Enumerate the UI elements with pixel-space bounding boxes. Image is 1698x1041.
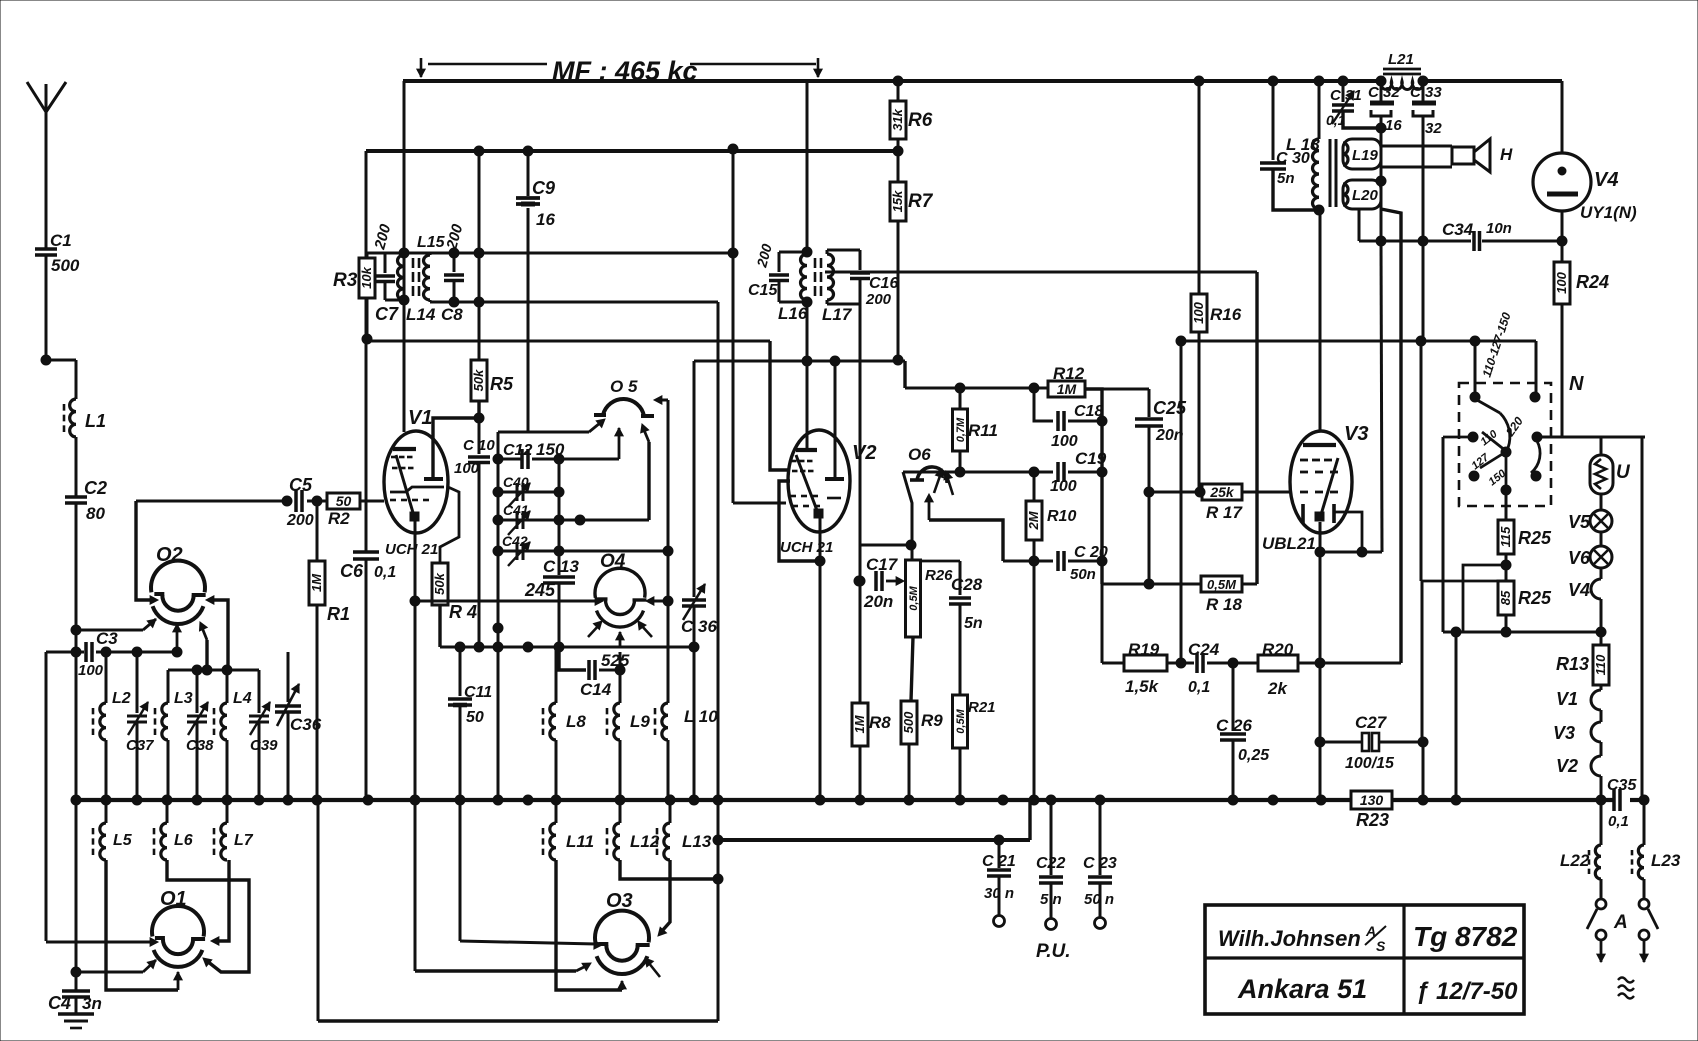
svg-text:Ankara 51: Ankara 51 <box>1237 974 1367 1004</box>
svg-text:20n: 20n <box>863 592 893 611</box>
svg-text:0,5M: 0,5M <box>955 708 967 733</box>
svg-text:Tg 8782: Tg 8782 <box>1413 921 1518 952</box>
svg-text:C 20: C 20 <box>1074 544 1108 561</box>
svg-text:O6: O6 <box>908 445 931 464</box>
svg-text:R13: R13 <box>1556 654 1589 674</box>
svg-text:200: 200 <box>286 512 314 529</box>
svg-text:C3: C3 <box>96 629 118 648</box>
svg-text:L13: L13 <box>682 832 712 851</box>
svg-text:L22: L22 <box>1560 851 1590 870</box>
svg-text:C19: C19 <box>1075 449 1107 468</box>
svg-text:R16: R16 <box>1210 305 1242 324</box>
svg-text:C 32: C 32 <box>1368 84 1400 101</box>
svg-text:200: 200 <box>865 291 892 308</box>
svg-text:0,1: 0,1 <box>1326 112 1346 128</box>
svg-text:C35: C35 <box>1607 777 1637 794</box>
svg-text:L6: L6 <box>174 832 193 849</box>
svg-text:R5: R5 <box>490 374 514 394</box>
svg-text:L3: L3 <box>174 690 193 707</box>
svg-text:32: 32 <box>1425 120 1442 137</box>
svg-text:20n: 20n <box>1155 427 1184 444</box>
svg-text:0,25: 0,25 <box>1238 747 1270 764</box>
svg-text:A: A <box>1613 912 1628 933</box>
svg-text:0,7M: 0,7M <box>955 417 967 442</box>
svg-text:130: 130 <box>1360 792 1384 808</box>
svg-text:R8: R8 <box>869 713 891 732</box>
svg-text:25k: 25k <box>1209 484 1235 500</box>
svg-text:500: 500 <box>51 256 80 275</box>
svg-text:C8: C8 <box>441 305 463 324</box>
svg-text:10k: 10k <box>359 266 374 288</box>
svg-text:UCH 21: UCH 21 <box>780 539 833 556</box>
svg-text:C27: C27 <box>1355 713 1388 732</box>
svg-text:C 13: C 13 <box>543 557 579 576</box>
svg-text:0,1: 0,1 <box>1188 679 1210 696</box>
svg-text:15k: 15k <box>890 190 905 212</box>
svg-text:L14: L14 <box>406 305 436 324</box>
svg-text:L1: L1 <box>85 411 106 431</box>
svg-text:C34: C34 <box>1442 220 1474 239</box>
svg-text:110: 110 <box>1593 654 1608 675</box>
svg-text:V4: V4 <box>1594 169 1618 191</box>
svg-text:UBL21: UBL21 <box>1262 534 1316 553</box>
svg-text:C42: C42 <box>502 533 528 549</box>
svg-text:C37: C37 <box>126 737 154 754</box>
svg-text:V6: V6 <box>1568 548 1591 568</box>
svg-text:S: S <box>1376 938 1386 954</box>
svg-text:R24: R24 <box>1576 272 1609 292</box>
svg-text:10n: 10n <box>1486 220 1512 237</box>
svg-text:1,5k: 1,5k <box>1125 677 1160 696</box>
svg-text:R1: R1 <box>327 604 350 624</box>
svg-text:O3: O3 <box>606 890 633 912</box>
svg-text:C15: C15 <box>748 282 778 299</box>
svg-text:R11: R11 <box>968 421 998 440</box>
svg-text:C41: C41 <box>503 502 529 518</box>
svg-text:V2: V2 <box>852 442 876 464</box>
svg-text:1M: 1M <box>852 714 867 733</box>
svg-text:R10: R10 <box>1047 508 1076 525</box>
svg-text:L11: L11 <box>566 832 594 851</box>
svg-text:R 4: R 4 <box>449 602 477 622</box>
svg-text:50: 50 <box>466 709 484 726</box>
svg-text:C39: C39 <box>250 737 278 754</box>
svg-text:2k: 2k <box>1267 679 1288 698</box>
svg-text:UCH 21: UCH 21 <box>385 541 438 558</box>
svg-text:L7: L7 <box>234 832 254 849</box>
svg-text:C 23: C 23 <box>1083 855 1117 872</box>
svg-text:C18: C18 <box>1074 403 1103 420</box>
svg-text:80: 80 <box>86 504 105 523</box>
svg-text:C7: C7 <box>375 304 399 324</box>
svg-text:R25: R25 <box>1518 528 1552 548</box>
svg-text:L20: L20 <box>1352 187 1379 204</box>
svg-text:L2: L2 <box>112 690 131 707</box>
svg-text:L4: L4 <box>233 690 252 707</box>
svg-text:L21: L21 <box>1388 51 1414 68</box>
svg-text:V4: V4 <box>1568 580 1590 600</box>
svg-text:R23: R23 <box>1356 810 1389 830</box>
svg-text:C17: C17 <box>866 555 899 574</box>
svg-text:R 17: R 17 <box>1206 503 1243 522</box>
svg-text:R2: R2 <box>328 509 350 528</box>
svg-text:C16: C16 <box>869 275 898 292</box>
svg-text:50k: 50k <box>471 369 486 391</box>
svg-text:1M: 1M <box>1057 381 1077 397</box>
svg-text:0,5M: 0,5M <box>908 585 920 610</box>
svg-text:1M: 1M <box>309 573 324 592</box>
svg-text:L17: L17 <box>822 305 853 324</box>
svg-text:5n: 5n <box>1277 170 1295 187</box>
svg-text:245: 245 <box>524 580 556 600</box>
svg-text:C2: C2 <box>84 478 107 498</box>
svg-text:C6: C6 <box>340 561 364 581</box>
svg-text:85: 85 <box>1498 590 1513 605</box>
svg-text:16: 16 <box>536 210 555 229</box>
svg-text:N: N <box>1569 373 1584 395</box>
svg-text:C 10: C 10 <box>463 437 495 454</box>
svg-text:0,1: 0,1 <box>374 564 396 581</box>
svg-text:U: U <box>1616 462 1631 483</box>
svg-text:100: 100 <box>78 662 104 679</box>
svg-text:5 n: 5 n <box>1040 891 1062 908</box>
svg-text:500: 500 <box>901 711 916 733</box>
svg-text:UY1(N): UY1(N) <box>1580 203 1637 222</box>
svg-text:C 26: C 26 <box>1216 716 1252 735</box>
svg-text:V1: V1 <box>1556 689 1578 709</box>
svg-text:C5: C5 <box>289 475 313 495</box>
svg-text:525: 525 <box>601 651 630 670</box>
svg-text:O4: O4 <box>600 551 626 572</box>
svg-text:C9: C9 <box>532 178 555 198</box>
svg-text:5n: 5n <box>964 615 983 632</box>
svg-text:2M: 2M <box>1026 510 1041 530</box>
svg-text:0,1: 0,1 <box>1608 813 1629 830</box>
svg-text:O1: O1 <box>160 888 187 910</box>
svg-text:O 5: O 5 <box>610 377 638 396</box>
svg-text:100: 100 <box>1191 301 1206 323</box>
svg-text:100/15: 100/15 <box>1345 755 1395 772</box>
svg-text:V5: V5 <box>1568 512 1591 532</box>
svg-text:C24: C24 <box>1188 640 1220 659</box>
svg-text:50: 50 <box>336 493 352 509</box>
svg-text:3n: 3n <box>82 994 102 1013</box>
svg-text:50 n: 50 n <box>1084 891 1114 908</box>
svg-text:R6: R6 <box>908 110 933 131</box>
svg-text:V3: V3 <box>1344 423 1368 445</box>
svg-text:C 31: C 31 <box>1330 87 1362 104</box>
svg-text:R7: R7 <box>908 191 934 212</box>
svg-text:L5: L5 <box>113 832 133 849</box>
svg-text:P.U.: P.U. <box>1036 941 1071 962</box>
svg-text:C 33: C 33 <box>1410 84 1442 101</box>
svg-text:100: 100 <box>1051 433 1078 450</box>
svg-text:R21: R21 <box>968 699 996 716</box>
svg-text:0,5M: 0,5M <box>1207 577 1237 592</box>
svg-text:L8: L8 <box>566 712 586 731</box>
svg-text:R25: R25 <box>1518 588 1552 608</box>
svg-text:C40: C40 <box>503 474 529 490</box>
svg-text:50n: 50n <box>1070 566 1096 583</box>
svg-text:100: 100 <box>454 460 480 477</box>
svg-text:C22: C22 <box>1036 855 1065 872</box>
svg-text:V1: V1 <box>408 407 432 429</box>
svg-text:C1: C1 <box>50 231 72 250</box>
svg-text:C 21: C 21 <box>982 853 1016 870</box>
svg-text:100: 100 <box>1050 478 1077 495</box>
svg-text:Wilh.Johnsen: Wilh.Johnsen <box>1218 926 1361 951</box>
svg-text:C 36: C 36 <box>681 617 717 636</box>
svg-text:L16: L16 <box>778 304 808 323</box>
svg-text:V3: V3 <box>1553 723 1575 743</box>
svg-text:L12: L12 <box>630 832 660 851</box>
svg-text:16: 16 <box>1385 117 1402 134</box>
svg-text:R26: R26 <box>925 567 953 584</box>
svg-text:C4: C4 <box>48 993 71 1013</box>
svg-text:L19: L19 <box>1352 147 1379 164</box>
svg-text:R3: R3 <box>333 270 358 291</box>
svg-text:30 n: 30 n <box>984 885 1014 902</box>
svg-text:ƒ 12/7-50: ƒ 12/7-50 <box>1416 978 1518 1005</box>
svg-text:H: H <box>1500 145 1513 164</box>
svg-text:31k: 31k <box>890 108 905 130</box>
svg-text:115: 115 <box>1498 526 1513 547</box>
svg-text:150: 150 <box>536 440 565 459</box>
svg-text:100: 100 <box>1554 271 1569 293</box>
svg-text:C 30: C 30 <box>1276 150 1310 167</box>
svg-text:C28: C28 <box>951 575 983 594</box>
svg-text:C38: C38 <box>186 737 214 754</box>
svg-text:O2: O2 <box>156 544 183 566</box>
svg-text:50k: 50k <box>432 572 447 594</box>
svg-text:L15: L15 <box>417 234 446 251</box>
svg-text:L9: L9 <box>630 712 650 731</box>
svg-text:R9: R9 <box>921 711 943 730</box>
svg-text:C12: C12 <box>503 442 532 459</box>
svg-text:L 10: L 10 <box>684 707 718 726</box>
svg-text:C11: C11 <box>464 684 492 701</box>
svg-text:C14: C14 <box>580 680 612 699</box>
svg-text:L23: L23 <box>1651 851 1681 870</box>
svg-text:R 18: R 18 <box>1206 595 1242 614</box>
svg-text:V2: V2 <box>1556 756 1578 776</box>
